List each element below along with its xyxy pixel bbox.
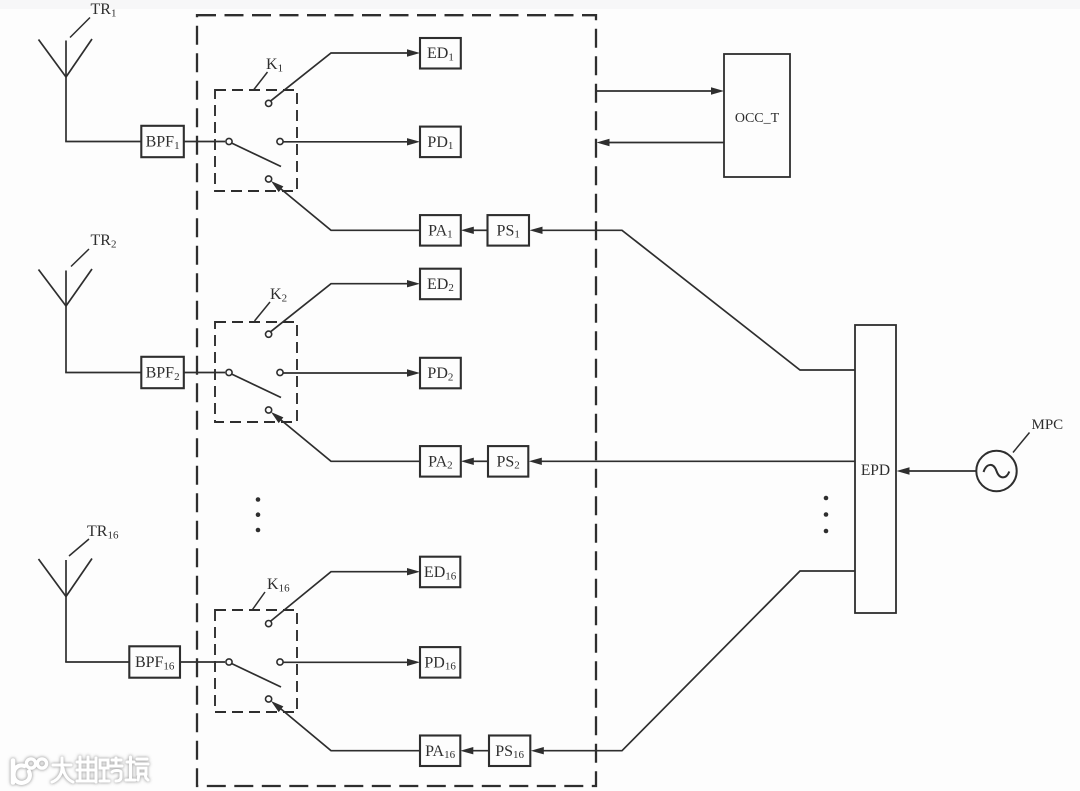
- wire PS1 to PA1: [461, 227, 488, 234]
- band-pass filter BPF1: [141, 126, 184, 157]
- envelope detector ED16: [420, 557, 460, 588]
- wire K2 to PD2: [283, 369, 420, 376]
- ellipsis: channels 3..15 (left): [256, 497, 261, 532]
- switch K2 dashed enclosure: [215, 322, 297, 422]
- antenna TR1: [39, 39, 93, 142]
- label TR2: [71, 232, 116, 267]
- switch K2 common contact: [226, 369, 232, 375]
- wire PA1 to K1: [271, 181, 420, 230]
- wire BPF16 to switch K16: [180, 661, 225, 663]
- switch K16 throw contact to ED16: [266, 621, 272, 627]
- svg-text:EPD: EPD: [861, 462, 890, 479]
- wire PA16 to K16: [271, 701, 420, 751]
- switch K2 throw contact from PA2: [266, 407, 272, 413]
- wire TR2 to BPF2: [65, 372, 141, 374]
- wire TR16 to BPF16: [65, 661, 129, 663]
- power source PS16: [489, 736, 530, 767]
- band-pass filter BPF16: [129, 646, 180, 677]
- svg-text:MPC: MPC: [1032, 417, 1064, 433]
- envelope detector ED1: [420, 38, 461, 69]
- label MPC: [1013, 417, 1063, 453]
- wire PA2 to K2: [271, 412, 420, 461]
- dashed enclosure: transceiver channel bank: [197, 15, 596, 786]
- switch K1 common contact: [226, 138, 232, 144]
- power detector PD1: [420, 127, 461, 158]
- switch K2 throw contact to PD2: [277, 369, 283, 375]
- switch K1 arm: [232, 143, 281, 166]
- power source PS2: [488, 446, 528, 477]
- wire EPD to PS16: [531, 571, 855, 754]
- switch K1 throw contact from PA1: [266, 176, 272, 182]
- wire BPF1 to switch K1: [184, 141, 225, 143]
- antenna TR2: [39, 269, 93, 373]
- wire TR1 to BPF1: [65, 141, 141, 143]
- label K1: [254, 56, 284, 90]
- switch K16 dashed enclosure: [215, 610, 297, 712]
- wire K1 to ED1: [271, 49, 420, 101]
- wire K1 to PD1: [283, 138, 420, 145]
- wire EPD to PS2: [529, 458, 855, 465]
- power divider EPD: [855, 325, 896, 613]
- switch K2 arm: [232, 374, 281, 397]
- signal source MPC: [976, 451, 1016, 491]
- label TR1: [70, 1, 116, 38]
- wire K16 to ED16: [271, 568, 420, 621]
- switch K16 throw contact to PD16: [277, 659, 283, 665]
- wire EPD to PS1: [530, 227, 856, 370]
- band-pass filter BPF2: [141, 357, 184, 388]
- switch K1 dashed enclosure: [215, 90, 297, 191]
- ellipsis: feeds 3..15 (right): [824, 496, 829, 534]
- switch K16 common contact: [226, 659, 232, 665]
- wire PS16 to PA16: [460, 747, 489, 754]
- label K16: [253, 576, 291, 610]
- power source PS1: [488, 215, 530, 246]
- antenna TR16: [39, 559, 93, 663]
- wire channel bank to OCC_T: [597, 87, 725, 94]
- wire K16 to PD16: [283, 659, 420, 666]
- switch K1 throw contact to ED1: [266, 100, 272, 106]
- wire OCC_T to channel bank: [597, 139, 725, 146]
- switch K1 throw contact to PD1: [277, 138, 283, 144]
- power amplifier PA2: [420, 446, 461, 477]
- label K2: [255, 286, 288, 321]
- wire BPF2 to switch K2: [184, 372, 225, 374]
- power amplifier PA16: [420, 736, 460, 767]
- controller OCC_T: [724, 54, 790, 177]
- power detector PD16: [420, 647, 460, 678]
- power detector PD2: [420, 358, 461, 389]
- wire MPC to EPD: [897, 467, 977, 474]
- envelope detector ED2: [420, 269, 461, 300]
- label TR16: [69, 523, 119, 556]
- wire PS2 to PA2: [461, 458, 488, 465]
- switch K2 throw contact to ED2: [266, 331, 272, 337]
- svg-text:OCC_T: OCC_T: [735, 111, 780, 126]
- power amplifier PA1: [420, 215, 461, 246]
- wire K2 to ED2: [271, 280, 420, 332]
- switch K16 arm: [232, 664, 281, 687]
- switch K16 throw contact from PA16: [266, 696, 272, 702]
